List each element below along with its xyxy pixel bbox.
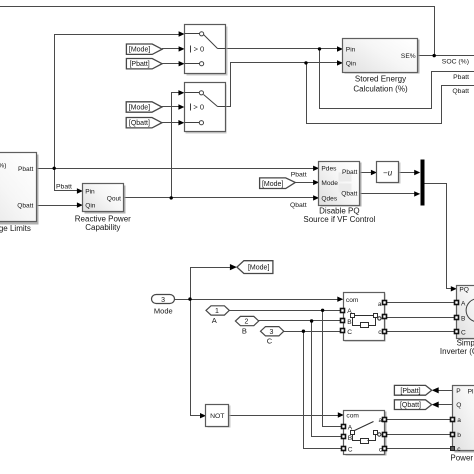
arrow into Qdes — [313, 195, 319, 200]
arrow into reactive Pin — [77, 188, 83, 193]
svg-text:Pbatt: Pbatt — [453, 74, 469, 81]
svg-text:Qbatt: Qbatt — [341, 191, 357, 198]
svg-text:[Mode]: [Mode] — [129, 105, 150, 112]
wire Qbatt to right edge — [307, 63, 474, 124]
svg-text:Pbatt: Pbatt — [291, 172, 307, 179]
wire SE% output to SOC (%) — [419, 55, 474, 57]
arrow into goto Pbatt — [432, 387, 439, 393]
svg-text:Pl: Pl — [468, 388, 474, 395]
svg-text:B: B — [242, 326, 247, 335]
wire Pbatt branch to Pin reactive — [55, 169, 77, 191]
junction Pbatt limit — [53, 167, 56, 170]
subsystem Stored Energy Calculation — [343, 39, 420, 94]
svg-text:PQ: PQ — [459, 287, 469, 294]
svg-text:Power Mea: Power Mea — [450, 454, 474, 463]
junction Qout — [170, 196, 173, 199]
junction hex B — [310, 319, 313, 322]
hex port 1 A — [206, 306, 229, 325]
svg-text:SOC (%): SOC (%) — [442, 58, 469, 65]
hex port 2 B — [235, 316, 258, 335]
svg-text:[Qbatt]: [Qbatt] — [129, 120, 150, 127]
junction Pin stored — [318, 47, 321, 50]
svg-text:Pin: Pin — [346, 47, 356, 54]
port square breaker2 B — [342, 435, 346, 439]
svg-text:B: B — [347, 319, 352, 326]
wire from tag Pbatt1 to switch1 — [163, 63, 179, 65]
arrow into Pdes — [313, 166, 319, 171]
goto tag Pbatt — [394, 385, 431, 395]
svg-text:[Qbatt]: [Qbatt] — [400, 402, 421, 409]
wire hex A to breaker1 A — [230, 310, 344, 312]
wire NOT out to breaker2 com — [229, 415, 338, 417]
wire Qbatt limit to Qin reactive — [36, 205, 77, 207]
from tag Mode3 — [260, 178, 296, 189]
svg-text:Pbatt: Pbatt — [342, 169, 358, 176]
port square breaker1 C — [341, 329, 345, 333]
svg-text:Qbatt: Qbatt — [452, 88, 469, 95]
arrow into switch2 bottom — [178, 120, 184, 125]
svg-text:[Mode]: [Mode] — [129, 47, 150, 54]
port square inverter C — [455, 330, 459, 334]
wire breaker2 a to power a — [385, 419, 453, 421]
wire from tag Mode1 to switch1 — [163, 48, 179, 50]
arrow into switch1 bottom — [179, 61, 185, 66]
wire C branch down to breaker2 C — [304, 332, 344, 449]
arrow into stored Qin — [337, 60, 343, 65]
junction Mode — [188, 297, 191, 300]
wire disable Pbatt to unary minus — [360, 172, 371, 174]
wire A branch down to breaker2 A — [323, 311, 344, 427]
subsystem Power Measurement — [450, 386, 474, 463]
arrow into stored Pin — [337, 46, 343, 51]
subsystem Reactive Power Capability — [75, 184, 131, 233]
svg-text:Pdes: Pdes — [321, 166, 337, 173]
logical operator NOT — [206, 405, 231, 428]
svg-text:SE%: SE% — [401, 53, 416, 60]
svg-text:C: C — [348, 446, 353, 453]
wire Mode inport to breaker1 com — [175, 299, 338, 301]
port square breaker2 C — [342, 447, 346, 451]
arrow into switch2 mid — [178, 104, 184, 109]
svg-text:(%): (%) — [0, 163, 6, 170]
port square breaker1 b — [383, 315, 387, 319]
svg-text:Capability: Capability — [85, 223, 120, 232]
arrow into switch2 top — [178, 90, 184, 95]
svg-text:Qbatt: Qbatt — [290, 202, 307, 209]
port square inverter A — [455, 301, 459, 305]
svg-text:[Pbatt]: [Pbatt] — [129, 61, 149, 68]
port square breaker2 a — [383, 418, 387, 422]
arrow into switch1 mid — [179, 46, 185, 51]
arrow into goto Mode — [230, 264, 237, 270]
svg-text:a: a — [457, 417, 461, 424]
port square power a — [451, 418, 455, 422]
arrow into goto Qbatt — [432, 402, 439, 408]
svg-text:Q: Q — [456, 402, 461, 409]
svg-text:Calculation (%): Calculation (%) — [353, 84, 408, 93]
wire breaker2 c to power c — [385, 448, 453, 450]
junction hex C — [302, 330, 305, 333]
wire power Q to goto Qbatt — [438, 404, 453, 406]
arrow into reactive Qin — [77, 202, 83, 207]
port square breaker1 c — [383, 330, 387, 334]
arrow into NOT — [200, 413, 206, 418]
wire Pbatt limit long to Pdes — [55, 168, 314, 170]
port square breaker1 A — [341, 309, 345, 313]
svg-text:1: 1 — [215, 308, 219, 315]
wire Mode branch to NOT — [191, 300, 201, 416]
arrow into mux in1 — [414, 170, 420, 175]
from tag Mode2 — [126, 102, 162, 112]
port square breaker2 b — [383, 433, 387, 437]
arrow into breaker2 com — [338, 412, 344, 417]
goto tag Mode — [237, 261, 273, 274]
svg-text:NOT: NOT — [210, 413, 224, 420]
wire Qout reactive to Qdes — [124, 197, 314, 199]
wire power P to goto Pbatt — [438, 390, 453, 392]
wire Pbatt limit to switch1 top — [36, 35, 179, 169]
wire mux to inverter PQ — [425, 184, 451, 289]
svg-text:2: 2 — [244, 319, 248, 326]
arrow into unary minus — [371, 170, 377, 175]
port square breaker2 c — [383, 447, 387, 451]
from tag Qbatt2 — [126, 118, 162, 128]
arrow into breaker1 com — [337, 297, 343, 302]
junction Qin stored — [304, 61, 307, 64]
wire name labels — [56, 58, 469, 209]
svg-text:B: B — [461, 315, 466, 322]
svg-text:Inverter (Continuous): Inverter (Continuous) — [440, 347, 474, 356]
port square breaker1 a — [383, 301, 387, 305]
port square power c — [451, 447, 455, 451]
wire breaker1 c to inverter C — [385, 331, 457, 333]
wire breaker2 b to power b — [385, 434, 453, 436]
svg-text:com: com — [346, 413, 359, 420]
svg-text:com: com — [346, 297, 359, 304]
wire Mode branch to goto Mode — [191, 268, 230, 300]
svg-text:b: b — [457, 432, 461, 439]
switch SW1 — [185, 25, 228, 76]
svg-text:Pbatt: Pbatt — [56, 184, 72, 191]
switch SW2 — [185, 83, 227, 134]
wire hex B to breaker1 B — [259, 320, 344, 322]
svg-text:A: A — [212, 316, 217, 325]
arrow into mux in2 — [414, 191, 420, 196]
wire from tag Mode3 to Mode port — [296, 182, 314, 184]
svg-text:Qdes: Qdes — [321, 195, 337, 202]
svg-text:[Mode]: [Mode] — [262, 181, 283, 188]
svg-text:3: 3 — [270, 329, 274, 336]
svg-text:> 0: > 0 — [193, 103, 204, 112]
wire Pbatt to right edge — [320, 49, 474, 109]
svg-text:C: C — [461, 329, 466, 336]
inport Mode oval — [152, 295, 175, 316]
breaker BRK2 — [342, 411, 387, 456]
wire switch2 out to Qin stored — [226, 63, 338, 107]
hex port 3 C — [261, 327, 284, 346]
svg-text:Qbatt: Qbatt — [17, 202, 33, 209]
arrow into inverter PQ — [451, 286, 457, 291]
svg-text:C: C — [267, 337, 273, 346]
svg-text:Pin: Pin — [85, 188, 95, 195]
svg-text:Reactive Power: Reactive Power — [75, 214, 131, 223]
svg-text:Charge Limits: Charge Limits — [0, 224, 31, 233]
arrow into Mode port — [313, 180, 319, 185]
wire disable Qbatt to mux — [360, 193, 415, 195]
wire breaker1 b to inverter B — [385, 317, 457, 319]
svg-text:P: P — [456, 388, 461, 395]
wire from tag Qbatt2 to switch2 — [162, 122, 179, 124]
wire switch1 out to Pin stored — [226, 48, 338, 50]
svg-text:a: a — [378, 301, 382, 308]
svg-text:Pbatt: Pbatt — [18, 166, 34, 173]
svg-text:> 0: > 0 — [194, 45, 205, 54]
svg-text:Mode: Mode — [321, 180, 338, 187]
wire B branch down to breaker2 B — [312, 321, 344, 437]
wire hex C to breaker1 C — [284, 331, 344, 333]
svg-text:3: 3 — [161, 297, 165, 304]
svg-text:Qin: Qin — [85, 203, 96, 210]
junction SOC — [433, 54, 436, 57]
port square inverter B — [455, 316, 459, 320]
svg-text:−u: −u — [383, 168, 393, 177]
arrowheads — [77, 31, 457, 418]
port square breaker2 A — [342, 425, 346, 429]
port square power b — [451, 433, 455, 437]
subsystem Simplified Inverter — [440, 286, 474, 356]
arrow into switch1 top — [179, 31, 185, 36]
from tag Pbatt1 — [126, 59, 162, 69]
unary minus U1 — [377, 162, 401, 184]
svg-text:Mode: Mode — [154, 307, 173, 316]
svg-text:Qout: Qout — [107, 195, 121, 202]
port square breaker1 B — [341, 319, 345, 323]
svg-text:[Mode]: [Mode] — [248, 265, 269, 272]
svg-text:Stored Energy: Stored Energy — [355, 74, 406, 83]
svg-text:Qin: Qin — [346, 60, 357, 67]
junction hex A — [321, 309, 324, 312]
wire unary minus to mux — [399, 172, 415, 174]
breaker BRK1 — [341, 293, 387, 342]
subsystem Disable PQ Source if VF Control — [303, 162, 375, 224]
subsystem Charge Limits — [0, 153, 39, 234]
wire Qout branch to switch2 top — [172, 93, 179, 198]
wire from tag Mode2 to switch2 — [162, 106, 179, 108]
svg-text:A: A — [461, 301, 466, 308]
mux M1 — [421, 160, 425, 206]
svg-text:Source if VF Control: Source if VF Control — [303, 215, 375, 224]
wire breaker1 a to inverter A — [385, 302, 457, 304]
goto tag Qbatt — [394, 400, 431, 410]
svg-text:[Pbatt]: [Pbatt] — [400, 388, 420, 395]
from tag Mode1 — [126, 44, 162, 54]
wire SOC feedback top — [1, 7, 435, 56]
svg-text:C: C — [347, 329, 352, 336]
